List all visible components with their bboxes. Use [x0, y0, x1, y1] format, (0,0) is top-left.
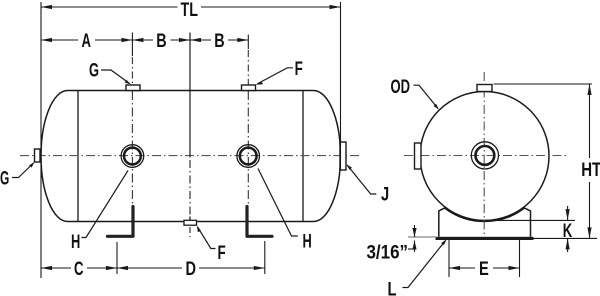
svg-text:B: B	[214, 31, 224, 52]
dimension 3/16"	[408, 236, 437, 238]
left leg	[108, 207, 134, 237]
svg-text:F: F	[218, 243, 226, 264]
dimension E	[448, 240, 450, 278]
port H no.1	[121, 145, 144, 168]
svg-text:C: C	[74, 259, 84, 280]
tank circle	[420, 92, 549, 221]
horizontal centerline	[20, 155, 360, 157]
saddle top concave arc	[439, 208, 531, 237]
centerline of port 1 / coupling G	[131, 33, 133, 206]
svg-text:K: K	[563, 221, 573, 242]
tank shell outline	[41, 91, 341, 222]
dimension TL	[41, 6, 341, 8]
dimension K	[567, 206, 569, 220]
svg-text:OD: OD	[391, 77, 411, 98]
svg-text:H: H	[71, 232, 80, 253]
svg-text:J: J	[381, 184, 389, 205]
svg-text:3/16”: 3/16”	[367, 243, 409, 264]
dimension HT	[494, 83, 593, 85]
end view port	[471, 142, 498, 169]
D right tick	[264, 241, 266, 274]
right end coupling J	[340, 142, 346, 170]
svg-text:D: D	[186, 259, 197, 280]
right leg	[247, 207, 272, 237]
bottom coupling F	[184, 220, 197, 225]
top coupling F	[242, 85, 256, 91]
top coupling G	[126, 85, 140, 91]
svg-text:H: H	[303, 231, 312, 252]
C/D boundary tick	[116, 242, 118, 274]
svg-text:G: G	[0, 168, 9, 189]
port H no.2	[237, 145, 260, 168]
dimension A	[41, 39, 132, 41]
svg-text:F: F	[295, 59, 303, 80]
right head weld seam	[302, 91, 304, 222]
dimension B (second)	[190, 39, 248, 41]
svg-text:L: L	[388, 279, 397, 296]
end view top coupling	[477, 85, 492, 92]
dimension C	[41, 267, 71, 269]
end view vertical centerline	[483, 72, 485, 236]
end view side coupling	[415, 143, 422, 169]
svg-text:TL: TL	[181, 0, 199, 21]
end view horizontal centerline	[404, 155, 568, 157]
svg-text:G: G	[89, 61, 99, 82]
svg-text:A: A	[82, 31, 92, 52]
left head weld seam	[77, 91, 79, 222]
left end coupling G	[35, 149, 41, 162]
extension line left (x=41)	[40, 2, 42, 278]
dimension B (first)	[132, 39, 190, 41]
svg-text:HT: HT	[581, 160, 600, 181]
svg-text:B: B	[156, 31, 166, 52]
base plate 3/16	[436, 237, 534, 240]
mid vertical line / bottom coupling F centerline	[189, 33, 191, 238]
svg-text:E: E	[479, 259, 489, 280]
extension line right (x=340.5)	[340, 2, 342, 170]
K top extension from tank bottom	[485, 219, 576, 221]
dimension D	[117, 267, 182, 269]
centerline of port 2 / coupling F	[247, 35, 249, 205]
